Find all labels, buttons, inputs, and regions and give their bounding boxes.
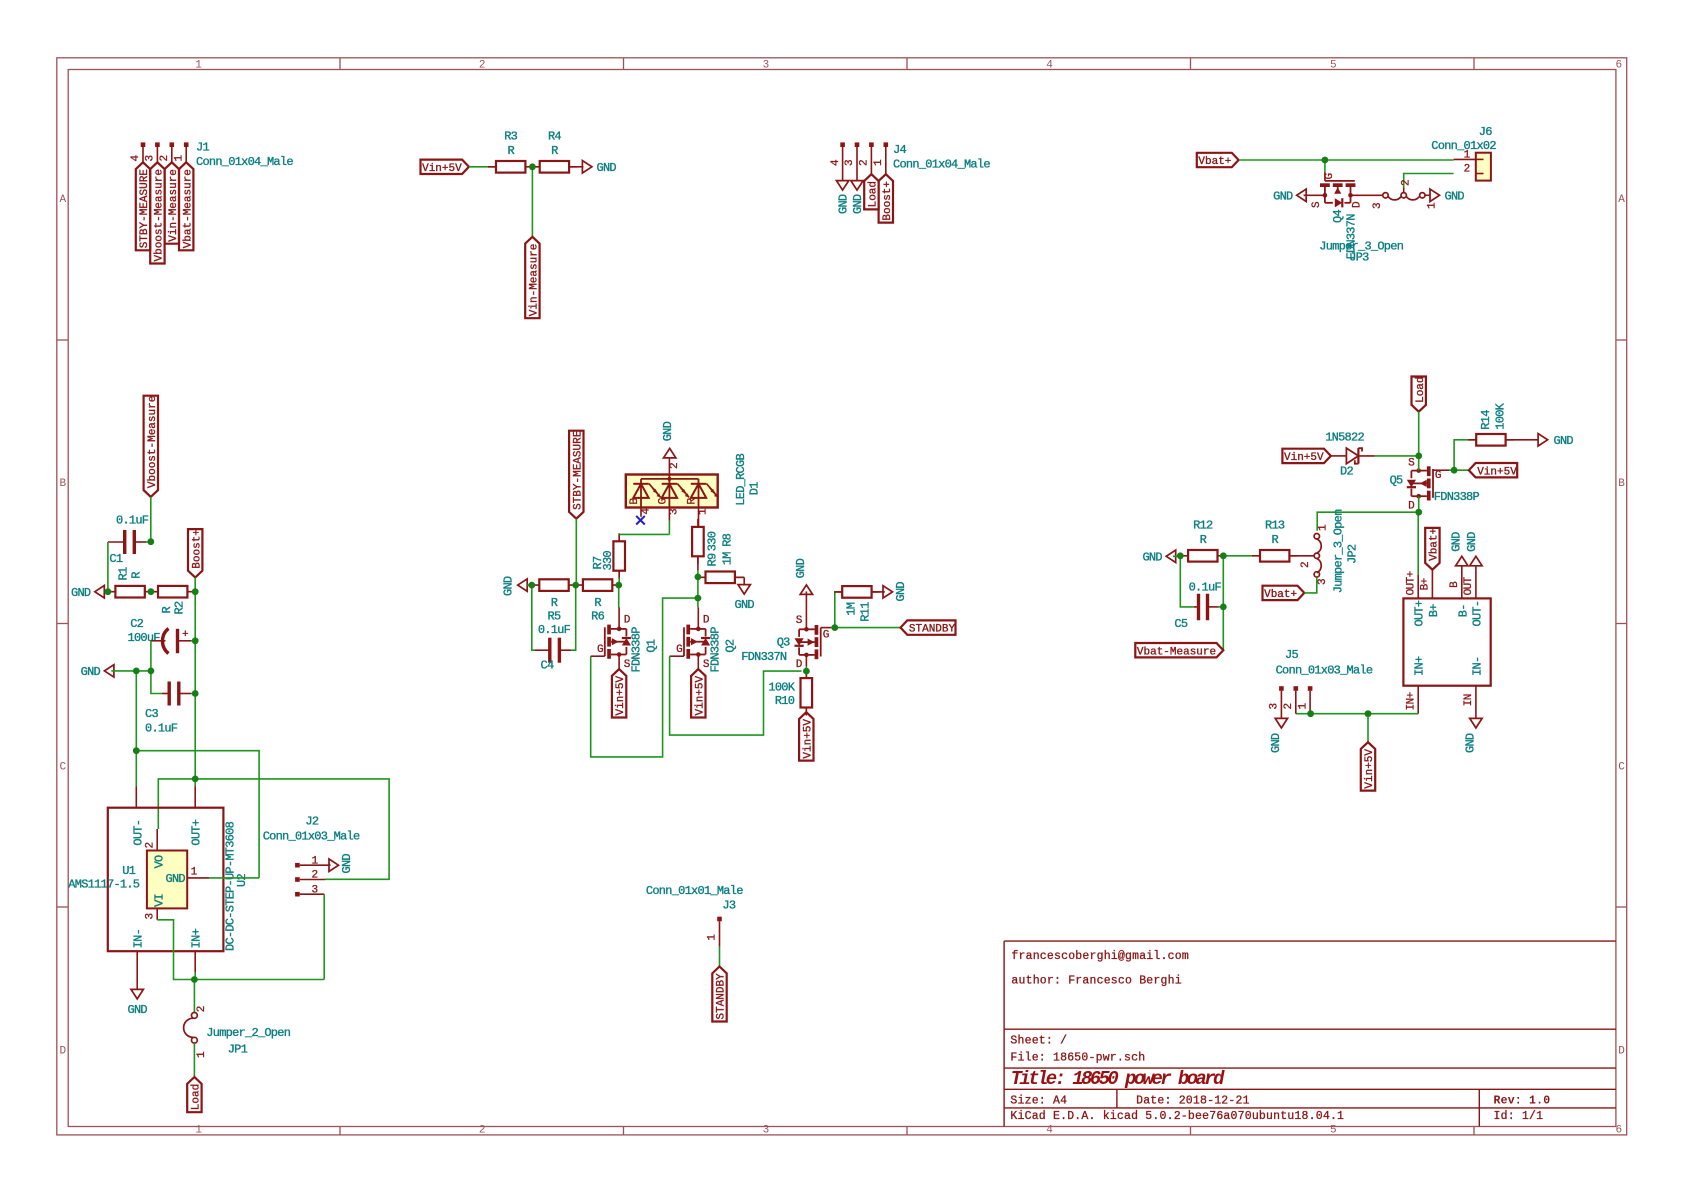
svg-text:KiCad E.D.A. kicad 5.0.2-bee: KiCad E.D.A. kicad 5.0.2-bee76a070ubuntu…	[1010, 1110, 1344, 1123]
svg-text:R5: R5	[548, 610, 561, 624]
svg-text:G: G	[676, 644, 682, 656]
svg-text:FDN338P: FDN338P	[1434, 490, 1480, 504]
svg-text:Vboost-Measure: Vboost-Measure	[147, 396, 159, 488]
svg-text:GND: GND	[1445, 190, 1465, 204]
svg-text:Vbat+: Vbat+	[1264, 589, 1297, 601]
svg-text:VI: VI	[152, 894, 166, 907]
svg-text:Title: 18650 power board: Title: 18650 power board	[1011, 1068, 1225, 1090]
svg-text:JP1: JP1	[228, 1043, 248, 1057]
svg-text:GND: GND	[166, 872, 186, 886]
svg-text:G: G	[823, 630, 829, 642]
svg-text:D: D	[624, 615, 631, 627]
svg-text:G: G	[1324, 173, 1336, 179]
svg-text:2: 2	[1300, 562, 1312, 568]
svg-text:author: Francesco Berghi: author: Francesco Berghi	[1011, 974, 1181, 987]
svg-text:Vbat+: Vbat+	[1429, 528, 1441, 561]
svg-text:Vin-Measure: Vin-Measure	[529, 244, 541, 317]
svg-text:B-: B-	[1456, 604, 1470, 617]
svg-text:3: 3	[144, 913, 156, 919]
svg-text:Vin+5V: Vin+5V	[422, 163, 462, 175]
svg-text:2: 2	[1464, 163, 1470, 175]
svg-text:FDN338P: FDN338P	[709, 627, 723, 673]
svg-text:S: S	[1311, 201, 1323, 208]
svg-text:Conn_01x01_Male: Conn_01x01_Male	[646, 884, 743, 898]
svg-text:1: 1	[173, 155, 185, 162]
svg-text:Vbat-Measure: Vbat-Measure	[1137, 646, 1216, 658]
svg-text:U2: U2	[235, 874, 249, 887]
svg-text:G: G	[657, 498, 669, 504]
svg-text:C1: C1	[109, 552, 122, 566]
svg-text:R9: R9	[706, 553, 720, 566]
svg-text:D: D	[1351, 201, 1363, 208]
svg-text:Boost+: Boost+	[882, 181, 894, 221]
svg-text:LED_RCGB: LED_RCGB	[734, 454, 748, 506]
svg-text:Date: 2018-12-21: Date: 2018-12-21	[1136, 1094, 1250, 1107]
svg-text:R14: R14	[1479, 410, 1493, 430]
svg-text:R4: R4	[548, 130, 561, 144]
svg-text:3: 3	[763, 59, 769, 71]
svg-text:Size: A4: Size: A4	[1010, 1094, 1067, 1107]
svg-text:6: 6	[1615, 59, 1621, 71]
svg-text:R: R	[594, 596, 601, 610]
svg-text:Vbat+: Vbat+	[1198, 156, 1231, 168]
svg-text:Conn_01x03_Male: Conn_01x03_Male	[1276, 664, 1373, 678]
svg-text:Q5: Q5	[1390, 474, 1403, 488]
svg-text:3: 3	[669, 509, 681, 515]
svg-text:GND: GND	[81, 665, 101, 679]
svg-text:R: R	[687, 498, 699, 505]
svg-text:Jumper_2_Open: Jumper_2_Open	[206, 1026, 290, 1040]
svg-text:A: A	[59, 194, 66, 206]
svg-text:GND: GND	[735, 598, 755, 612]
svg-text:francescoberghi@gmail.com: francescoberghi@gmail.com	[1011, 950, 1189, 963]
svg-text:J1: J1	[196, 140, 209, 154]
svg-text:R1: R1	[117, 567, 131, 580]
svg-text:1: 1	[191, 866, 198, 878]
svg-text:Q3: Q3	[777, 636, 790, 650]
svg-text:Load: Load	[1415, 376, 1427, 402]
svg-text:GND: GND	[661, 421, 675, 441]
svg-text:2: 2	[144, 842, 156, 848]
svg-text:B+: B+	[1420, 578, 1432, 590]
svg-text:4: 4	[1046, 59, 1053, 71]
svg-text:1: 1	[1427, 202, 1439, 209]
svg-text:3: 3	[844, 160, 856, 166]
svg-text:GND: GND	[1450, 532, 1464, 552]
svg-text:R: R	[507, 144, 514, 158]
svg-text:C2: C2	[130, 617, 143, 631]
svg-text:R13: R13	[1265, 519, 1285, 533]
svg-text:1: 1	[195, 59, 202, 71]
svg-text:R3: R3	[504, 130, 517, 144]
svg-text:100uF: 100uF	[128, 631, 161, 645]
svg-text:Load: Load	[191, 1084, 203, 1110]
svg-text:GND: GND	[597, 161, 617, 175]
svg-text:A: A	[1618, 194, 1625, 206]
svg-text:FDN338P: FDN338P	[630, 627, 644, 673]
svg-text:STANDBY: STANDBY	[716, 973, 728, 1020]
svg-text:GND: GND	[1269, 733, 1283, 753]
svg-text:1: 1	[1464, 149, 1471, 161]
svg-text:C4: C4	[541, 658, 554, 672]
svg-text:C: C	[59, 762, 66, 774]
svg-text:D1: D1	[748, 482, 762, 495]
svg-text:4: 4	[830, 159, 842, 166]
svg-text:GND: GND	[1273, 190, 1293, 204]
svg-text:D2: D2	[1340, 465, 1353, 479]
svg-text:2: 2	[669, 463, 681, 469]
svg-text:1: 1	[707, 934, 719, 941]
svg-text:G: G	[1435, 470, 1441, 482]
svg-text:GND: GND	[1554, 434, 1574, 448]
svg-text:Vin+5V: Vin+5V	[1284, 452, 1324, 464]
svg-text:R6: R6	[591, 610, 604, 624]
svg-text:B: B	[1449, 581, 1461, 588]
svg-text:D: D	[59, 1045, 66, 1057]
svg-text:D: D	[1618, 1045, 1625, 1057]
svg-text:100K: 100K	[1494, 402, 1508, 429]
svg-text:6: 6	[1615, 1125, 1621, 1137]
svg-text:330: 330	[706, 531, 720, 551]
svg-text:330: 330	[601, 551, 615, 571]
svg-text:5: 5	[1330, 1125, 1336, 1137]
svg-text:2: 2	[159, 155, 171, 161]
svg-text:3: 3	[763, 1125, 769, 1137]
svg-text:GND: GND	[340, 854, 354, 874]
svg-text:2: 2	[859, 160, 871, 166]
svg-text:IN+: IN+	[190, 928, 204, 948]
svg-text:R12: R12	[1193, 519, 1213, 533]
svg-text:J6: J6	[1479, 125, 1492, 139]
svg-text:STANDBY: STANDBY	[909, 624, 956, 636]
svg-text:5: 5	[1330, 59, 1336, 71]
svg-text:B+: B+	[1427, 604, 1441, 617]
svg-text:Conn_01x04_Male: Conn_01x04_Male	[196, 155, 293, 169]
svg-text:GND: GND	[1464, 733, 1478, 753]
svg-text:J3: J3	[722, 899, 735, 913]
svg-text:D: D	[796, 659, 803, 671]
svg-text:AMS1117-1.5: AMS1117-1.5	[68, 878, 140, 892]
svg-text:GND: GND	[1465, 532, 1479, 552]
svg-text:B: B	[1618, 478, 1625, 490]
svg-text:2: 2	[1400, 180, 1412, 186]
svg-text:1M: 1M	[721, 552, 735, 565]
svg-text:3: 3	[145, 155, 157, 161]
svg-text:2: 2	[479, 1125, 485, 1137]
svg-text:STBY-MEASURE: STBY-MEASURE	[572, 430, 584, 510]
svg-text:4: 4	[1046, 1125, 1053, 1137]
svg-text:GND: GND	[1142, 551, 1162, 565]
svg-text:S: S	[1408, 457, 1415, 469]
svg-text:100K: 100K	[768, 681, 795, 695]
svg-text:Vin+5V: Vin+5V	[615, 675, 627, 715]
svg-text:JP3: JP3	[1349, 251, 1369, 265]
svg-text:B: B	[59, 478, 66, 490]
svg-text:GND: GND	[851, 194, 865, 214]
svg-text:R: R	[551, 596, 558, 610]
svg-text:Sheet: /: Sheet: /	[1010, 1035, 1067, 1048]
svg-text:GND: GND	[128, 1003, 148, 1017]
svg-text:Q2: Q2	[724, 639, 738, 652]
svg-text:2: 2	[196, 1006, 208, 1012]
svg-text:FDN337N: FDN337N	[741, 650, 787, 664]
svg-text:1M: 1M	[845, 602, 859, 615]
svg-text:1: 1	[1297, 703, 1309, 710]
svg-text:GND: GND	[502, 576, 516, 596]
svg-text:1: 1	[196, 1051, 208, 1058]
svg-text:4: 4	[641, 508, 653, 515]
svg-text:C3: C3	[145, 707, 158, 721]
svg-text:JP2: JP2	[1346, 544, 1360, 564]
svg-text:Vin+5V: Vin+5V	[694, 675, 706, 715]
svg-text:GND: GND	[837, 194, 851, 214]
svg-text:Vin+5V: Vin+5V	[1477, 466, 1517, 478]
svg-text:R: R	[130, 572, 144, 579]
svg-text:Conn_01x03_Male: Conn_01x03_Male	[263, 830, 360, 844]
svg-text:Conn_01x04_Male: Conn_01x04_Male	[893, 158, 990, 172]
svg-text:GND: GND	[794, 558, 808, 578]
svg-text:OUT+: OUT+	[190, 819, 204, 845]
svg-text:OUT-: OUT-	[132, 820, 146, 846]
svg-text:2: 2	[1283, 703, 1295, 709]
svg-text:3: 3	[1317, 579, 1329, 585]
svg-text:Vin+5V: Vin+5V	[1364, 749, 1376, 789]
svg-text:R: R	[1200, 533, 1207, 547]
svg-text:1: 1	[195, 1125, 202, 1137]
svg-text:0.1uF: 0.1uF	[1189, 581, 1222, 595]
svg-text:S: S	[796, 615, 803, 627]
svg-text:OUT+: OUT+	[1413, 600, 1427, 626]
svg-text:D: D	[703, 615, 710, 627]
svg-text:J5: J5	[1285, 648, 1298, 662]
svg-text:Q4: Q4	[1331, 210, 1345, 223]
svg-text:R: R	[551, 144, 558, 158]
svg-text:Vin+5V: Vin+5V	[802, 719, 814, 759]
svg-text:3: 3	[1372, 203, 1384, 209]
svg-text:1N5822: 1N5822	[1325, 431, 1364, 445]
svg-text:R11: R11	[859, 602, 873, 622]
svg-text:J4: J4	[893, 143, 906, 157]
svg-text:IN-: IN-	[132, 929, 146, 948]
svg-text:VO: VO	[152, 855, 166, 868]
svg-text:1: 1	[698, 508, 710, 515]
svg-text:OUT: OUT	[1463, 576, 1475, 595]
svg-text:R: R	[1271, 533, 1278, 547]
svg-text:OUT+: OUT+	[1405, 571, 1417, 595]
svg-text:4: 4	[130, 155, 142, 162]
svg-text:R10: R10	[775, 694, 795, 708]
svg-text:IN+: IN+	[1405, 692, 1417, 710]
svg-text:Jumper_3_Open: Jumper_3_Open	[1332, 509, 1346, 593]
svg-text:IN+: IN+	[1413, 656, 1427, 676]
svg-text:Rev: 1.0: Rev: 1.0	[1494, 1094, 1551, 1107]
svg-text:+: +	[182, 629, 188, 641]
svg-text:G: G	[597, 644, 603, 656]
svg-text:IN-: IN-	[1471, 657, 1485, 676]
svg-text:Q1: Q1	[644, 639, 658, 652]
svg-text:1: 1	[873, 159, 885, 166]
svg-text:Vbat-Measure: Vbat-Measure	[182, 169, 194, 248]
svg-text:GND: GND	[894, 582, 908, 602]
svg-text:0.1uF: 0.1uF	[145, 722, 178, 736]
svg-text:R2: R2	[173, 601, 187, 614]
svg-text:Id: 1/1: Id: 1/1	[1494, 1110, 1544, 1123]
svg-text:C5: C5	[1174, 617, 1187, 631]
svg-text:1: 1	[1317, 524, 1329, 531]
svg-text:0.1uF: 0.1uF	[538, 623, 571, 637]
svg-text:3: 3	[1269, 703, 1281, 709]
svg-text:0.1uF: 0.1uF	[116, 514, 149, 528]
svg-text:OUT-: OUT-	[1471, 601, 1485, 627]
svg-text:IN: IN	[1463, 694, 1475, 706]
svg-text:GND: GND	[71, 586, 91, 600]
svg-text:C: C	[1618, 762, 1625, 774]
svg-text:U1: U1	[122, 864, 135, 878]
svg-text:R8: R8	[721, 533, 735, 546]
svg-text:D: D	[1408, 501, 1415, 513]
svg-text:Boost+: Boost+	[191, 529, 203, 569]
svg-text:J2: J2	[305, 815, 318, 829]
svg-text:2: 2	[479, 59, 485, 71]
svg-text:B: B	[629, 498, 641, 505]
svg-text:File: 18650-pwr.sch: File: 18650-pwr.sch	[1010, 1051, 1145, 1064]
